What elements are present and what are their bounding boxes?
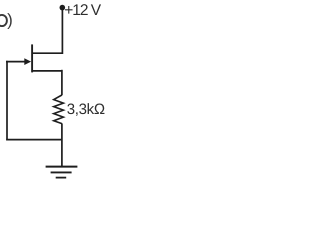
svg-text:+12 V: +12 V bbox=[64, 2, 102, 19]
wire source down to resistor bbox=[61, 70, 63, 95]
wire gate feedback: left vertical bbox=[6, 61, 8, 141]
wire drain to +12V bbox=[32, 9, 62, 55]
ground bbox=[46, 167, 78, 178]
wire gate feedback: bottom horizontal to source node bbox=[6, 139, 62, 141]
node +12V supply dot bbox=[60, 5, 66, 11]
transistor Q1 gate lead with arrow bbox=[6, 61, 25, 63]
transistor Q1 channel bar bbox=[31, 44, 33, 72]
wire resistor to ground bbox=[61, 123, 63, 166]
transistor Q1 source lead bbox=[32, 70, 62, 72]
label b) bbox=[0, 15, 7, 26]
svg-text:3,3kΩ: 3,3kΩ bbox=[67, 101, 105, 118]
svg-text:): ) bbox=[7, 10, 13, 29]
resistor R 3,3k zigzag bbox=[54, 95, 64, 124]
